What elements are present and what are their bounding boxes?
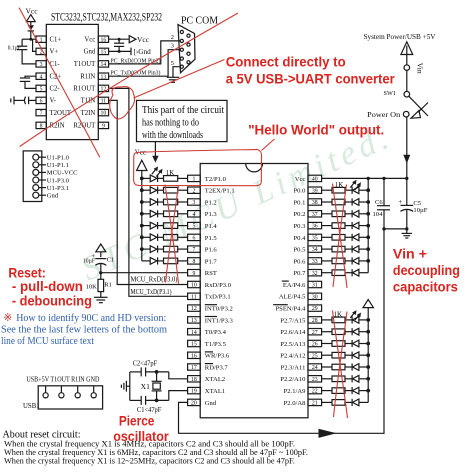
note arrow (152, 142, 158, 163)
resistor 1K row P0.3 (322, 223, 345, 229)
svg-text:Vin +: Vin + (393, 247, 427, 262)
svg-text:P1.7: P1.7 (205, 258, 218, 265)
U3 pin 23 (P2.2/A10) (280, 376, 321, 384)
svg-text:PC COM: PC COM (181, 16, 219, 27)
svg-text:PSEN/P4.4: PSEN/P4.4 (276, 306, 307, 313)
resistor 1K row P1.5 (164, 235, 188, 241)
svg-text:P2.1/A9: P2.1/A9 (284, 388, 307, 395)
LED row P1.4 (140, 222, 164, 229)
U3 pin 10 (RxD/P3.0) (188, 281, 232, 289)
svg-text:System Power/USB +5V: System Power/USB +5V (364, 33, 437, 41)
svg-text:P0.1: P0.1 (293, 199, 305, 206)
LED row P1.1 (140, 187, 164, 194)
svg-text:C2-: C2- (50, 86, 61, 93)
note crystal line 1 (4, 439, 295, 448)
DB9 pin number 3 (171, 42, 174, 49)
svg-text:- debouncing: - debouncing (12, 293, 92, 309)
U3 pin 26 (P2.5/A13) (280, 340, 321, 348)
red scribble around MAX232 TTL pins (110, 87, 135, 119)
svg-text:[›Gnd: [›Gnd (134, 48, 152, 56)
resistor 1K row P2.7 (322, 317, 345, 323)
svg-text:RD/P3.7: RD/P3.7 (205, 364, 229, 371)
LED row P0.3 (345, 222, 370, 229)
svg-text:5: 5 (192, 224, 195, 230)
U2 pin 11 (T1IN) (81, 97, 109, 105)
LED row P2.0 (345, 399, 368, 406)
resistor 1K row P1.3 (164, 211, 188, 217)
svg-text:U1-P3.0: U1-P3.0 (47, 177, 70, 184)
svg-text:U1-P1.1: U1-P1.1 (47, 162, 69, 169)
resistor 1K row P0.4 (322, 235, 345, 241)
svg-text:24: 24 (312, 365, 318, 371)
svg-text:9: 9 (102, 124, 105, 130)
svg-text:16: 16 (101, 37, 107, 43)
svg-text:Vcc: Vcc (295, 176, 306, 183)
capacitor C1 10uF (reset) (83, 253, 114, 273)
svg-text:P2.3/A11: P2.3/A11 (281, 364, 306, 371)
svg-text:12: 12 (191, 306, 197, 312)
svg-text:P2.6/A14: P2.6/A14 (280, 329, 306, 336)
svg-text:TxD/P3.1: TxD/P3.1 (205, 294, 231, 301)
svg-text:MCU_TxD(P3.1): MCU_TxD(P3.1) (131, 289, 172, 296)
svg-text:WR/P3.6: WR/P3.6 (205, 353, 230, 360)
LED row P0.2 (345, 210, 370, 217)
U1 pin U1-P3.0 (33, 177, 70, 184)
U3 pin 33 (P0.6) (293, 258, 321, 266)
svg-text:P2.4/A12: P2.4/A12 (280, 353, 305, 360)
LED row P2.7 (345, 316, 370, 323)
switch SW1 (384, 90, 429, 118)
svg-text:P1.4: P1.4 (205, 223, 218, 230)
red loop around pin1 row (134, 139, 275, 186)
svg-text:- pull-down: - pull-down (12, 278, 83, 294)
note crystal line 2 (4, 448, 308, 457)
svg-text:C6: C6 (375, 199, 383, 206)
svg-text:4: 4 (192, 212, 195, 218)
svg-text:10: 10 (191, 283, 197, 289)
capacitor C2 47pF (130, 359, 169, 377)
svg-text:29: 29 (312, 306, 318, 312)
svg-text:25: 25 (312, 353, 318, 359)
U3 pin 39 (P0.0) (293, 187, 321, 195)
USB1 pin 3 (75, 386, 80, 398)
svg-text:+: + (92, 253, 96, 260)
IC U2 MAX232 body (46, 11, 162, 139)
svg-text:11: 11 (101, 99, 107, 105)
svg-text:R1OUT: R1OUT (73, 86, 96, 93)
red text: pierce oscillator (113, 413, 169, 444)
connector U1 header (23, 151, 42, 202)
U3 pin 40 (Vcc) (295, 175, 322, 183)
svg-text:capacitors: capacitors (393, 280, 458, 295)
MCU U3 STC89C52 body (200, 164, 308, 418)
wire power to rail with arrow (403, 116, 410, 178)
blue note line 2 (1, 325, 167, 336)
U3 pin 28 (P2.7/A15) (280, 317, 321, 325)
LED row P1.7 (142, 257, 164, 264)
LED row P2.1 (345, 387, 370, 394)
LED row P0.5 (345, 246, 370, 253)
svg-text:35: 35 (312, 235, 318, 241)
red annotation line to converter text (134, 60, 225, 99)
U2 pin 6 (V-) (36, 97, 57, 105)
svg-text:C1: C1 (107, 257, 115, 264)
svg-text:P0.0: P0.0 (293, 188, 306, 195)
svg-text:C1+: C1+ (50, 37, 62, 44)
svg-text:SW1: SW1 (384, 90, 396, 97)
blue note line 1 (3, 313, 166, 324)
svg-text:7: 7 (192, 247, 195, 253)
U2 pin 10 (T2IN) (81, 109, 109, 117)
LED row P0.0 (345, 187, 370, 194)
svg-text:P0.6: P0.6 (293, 258, 306, 265)
svg-text:2: 2 (171, 34, 174, 41)
svg-text:T1OUT: T1OUT (74, 61, 96, 68)
U3 pin 27 (P2.6/A14) (280, 329, 321, 337)
ground rail under caps (382, 227, 408, 230)
USB1 pin 1 (43, 386, 48, 398)
LED row P2.3 (345, 363, 370, 370)
LED row P2.4 (345, 352, 370, 359)
svg-text:a 5V USB->UART converter: a 5V USB->UART converter (226, 72, 396, 87)
svg-text:XTAL1: XTAL1 (205, 388, 225, 395)
svg-text:39: 39 (312, 188, 318, 194)
connector USB1 (23, 377, 103, 411)
U3 pin 17 (RD/P3.7) (188, 364, 229, 372)
node Vin (404, 63, 425, 74)
resistor 1K row P1.0 (164, 176, 188, 182)
svg-text:15: 15 (191, 342, 197, 348)
svg-text:※How to identify 90C and HD ve: ※How to identify 90C and HD version: (3, 313, 166, 324)
svg-text:26: 26 (312, 342, 318, 348)
resistor 1K row P2.1 (322, 388, 345, 394)
U2 pin 4 (C2+) (36, 73, 61, 81)
wire pin14 T1OUT to DB9 pin2 (109, 41, 181, 64)
svg-text:MCU_RxD(P3.0): MCU_RxD(P3.0) (131, 277, 178, 284)
svg-text:T1/P3.5: T1/P3.5 (205, 341, 227, 348)
resistor 1K row P0.7 (322, 270, 345, 276)
svg-text:3: 3 (40, 62, 43, 68)
power symbol Vcc (MAX232) (26, 7, 39, 26)
power symbol Vcc (reset) (96, 244, 106, 257)
U3 pin 22 (P2.1/A9) (284, 387, 322, 395)
U3 pin 31 (EA/P4.6) (282, 281, 322, 289)
svg-text:EA/P4.6: EA/P4.6 (283, 282, 306, 289)
U2 pin 9 (R2OUT) (73, 122, 108, 130)
svg-text:P0.2: P0.2 (293, 211, 305, 218)
U3 pin 6 (P1.5) (188, 234, 218, 242)
U3 pin 3 (P1.2) (188, 199, 217, 207)
svg-text:XTAL2: XTAL2 (205, 376, 225, 383)
ground symbol (reset) (94, 297, 108, 302)
connector PC COM (DB9) (178, 16, 219, 73)
svg-text:4: 4 (40, 74, 43, 80)
U3 pin 25 (P2.4/A12) (280, 352, 321, 360)
power symbol Vcc (left LED rail) (135, 150, 147, 171)
resistor 1K row P0.0 (322, 187, 345, 193)
LED row P2.6 (345, 328, 370, 335)
svg-text:U1-P1.0: U1-P1.0 (47, 155, 70, 162)
svg-text:+: + (398, 198, 402, 206)
resistor 1K row P0.6 (322, 258, 345, 264)
LED emission arrows (left) (152, 166, 163, 176)
U3 pin 14 (T0/P3.4) (188, 329, 227, 337)
svg-text:14: 14 (191, 330, 197, 336)
U2 pin 1 (C1+) (36, 36, 61, 44)
svg-text:20: 20 (191, 401, 197, 407)
svg-text:23: 23 (312, 377, 318, 383)
svg-text:oscillator: oscillator (113, 429, 169, 444)
U3 pin 36 (P0.3) (293, 222, 321, 230)
LED row P0.6 (345, 257, 370, 264)
svg-text:P2.5/A13: P2.5/A13 (280, 341, 306, 348)
U2 pin 16 (Vcc) (84, 36, 108, 44)
wire Gnd return with arrow (179, 229, 385, 438)
svg-text:5: 5 (171, 60, 174, 67)
label 1K (left) (166, 169, 175, 177)
svg-text:Vcc: Vcc (137, 35, 150, 44)
svg-text:Gnd: Gnd (205, 400, 217, 407)
resistor 1K row P0.2 (322, 211, 345, 217)
svg-text:R1IN: R1IN (80, 74, 95, 81)
svg-text:PC_RxD(COM Pin2): PC_RxD(COM Pin2) (111, 57, 161, 64)
svg-text:"Hello World" output.: "Hello World" output. (248, 122, 384, 137)
U3 pin 38 (P0.1) (293, 199, 321, 207)
LED row P1.3 (140, 210, 164, 217)
svg-text:40: 40 (312, 177, 318, 183)
svg-text:T2IN: T2IN (81, 110, 96, 117)
resistor 1K row P2.0 (322, 400, 345, 406)
ground symbol (crystal) (121, 381, 126, 392)
svg-text:5: 5 (40, 87, 43, 93)
wire XTAL1 (155, 391, 188, 403)
red cross over MAX232 (19, 8, 238, 158)
svg-text:11: 11 (191, 294, 197, 300)
svg-text:18: 18 (191, 377, 197, 383)
wire pin12 R1OUT to MCU TxD (109, 88, 188, 296)
svg-text:Vin: Vin (416, 63, 425, 74)
svg-text:When the crystal frequency X1: When the crystal frequency X1 is 12~25MH… (4, 457, 295, 466)
svg-text:STC3232,STC232,MAX232,SP232: STC3232,STC232,MAX232,SP232 (51, 11, 162, 23)
resistor 1K row P2.5 (322, 341, 345, 347)
LED row P0.1 (345, 198, 370, 205)
U3 pin 30 (ALE/P4.5) (279, 293, 322, 301)
LED emission arrows (P2) (350, 310, 361, 320)
U3 pin 34 (P0.5) (293, 246, 321, 254)
rail wire (P2 LEDs) (367, 308, 369, 403)
capacitor C7 (decoupling) (114, 39, 124, 51)
svg-text:104: 104 (373, 211, 384, 218)
svg-text:10µF: 10µF (413, 207, 427, 214)
U3 pin 21 (P2.0/A8) (284, 399, 322, 407)
wire Vin to SW1 (406, 70, 408, 92)
USB1 pin 2 (59, 386, 64, 398)
svg-text:27: 27 (312, 330, 318, 336)
U3 pin 32 (P0.7) (293, 270, 321, 278)
U2 pin 12 (R1OUT) (73, 85, 108, 93)
U3 pin 4 (P1.3) (188, 211, 218, 219)
U1 pin MCU-VCC (33, 169, 78, 176)
U3 pin 16 (WR/P3.6) (188, 352, 230, 360)
rail wire (left Vcc) (141, 171, 143, 261)
svg-text:P1.3: P1.3 (205, 211, 218, 218)
U3 pin 2 (T2EX/P1.1) (188, 187, 235, 195)
wire pin16 Vcc (109, 38, 130, 41)
red text: hello world (248, 122, 384, 137)
resistor 1K row P1.2 (164, 199, 188, 205)
LED row P2.2 (345, 375, 370, 382)
label 1K (P2) (334, 310, 343, 318)
svg-text:6: 6 (40, 99, 43, 105)
svg-text:28: 28 (312, 318, 318, 324)
resistor 1K row P1.6 (164, 246, 188, 252)
LED row P1.0 (140, 175, 164, 182)
svg-text:with the downloads: with the downloads (142, 130, 203, 141)
svg-text:P0.4: P0.4 (293, 235, 306, 242)
LED row P0.7 (345, 269, 368, 276)
U3 pin 12 (INT0/P3.2) (188, 305, 233, 313)
U2 pin 8 (R2IN) (36, 122, 65, 130)
power symbol Vcc (right) (129, 35, 150, 44)
DB9 holes (180, 30, 190, 68)
svg-text:13: 13 (101, 74, 107, 80)
svg-text:T2OUT: T2OUT (50, 110, 72, 117)
DB9 pin number 2 (171, 34, 174, 41)
svg-text:19: 19 (191, 389, 197, 395)
red cross over P1 resistors (165, 185, 179, 284)
U3 pin 15 (T1/P3.5) (188, 340, 227, 348)
svg-text:22: 22 (312, 389, 318, 395)
wire crystal left leg (126, 372, 129, 401)
label About reset circuit (3, 430, 81, 441)
power symbol Vcc (P2 rail) (363, 300, 373, 308)
svg-text:line of MCU surface text: line of MCU surface text (1, 336, 94, 347)
U3 pin 8 (P1.7) (188, 258, 218, 266)
svg-text:Power On: Power On (367, 110, 400, 119)
U2 pin 2 (V+) (36, 48, 58, 56)
U3 pin 5 (P1.4) (188, 222, 218, 230)
svg-text:RxD/P3.0: RxD/P3.0 (205, 282, 232, 289)
svg-text:INT0/P3.2: INT0/P3.2 (205, 306, 233, 313)
LED row P1.2 (140, 198, 164, 205)
svg-text:T2/P1.0: T2/P1.0 (205, 176, 227, 183)
label 1K (P0) (335, 181, 344, 189)
diode D5 (supply) (28, 25, 34, 39)
USB1 pin 4 (91, 386, 96, 398)
wire node pin1 (22, 38, 36, 41)
svg-text:P0.5: P0.5 (293, 247, 306, 254)
svg-text:10K: 10K (86, 283, 98, 290)
svg-text:INT1/P3.3: INT1/P3.3 (205, 317, 234, 324)
svg-text:USB+5V T1OUT R1IN GND: USB+5V T1OUT R1IN GND (26, 377, 99, 384)
svg-text:USB1: USB1 (23, 403, 40, 410)
svg-text:has nothing to do: has nothing to do (142, 118, 199, 129)
red text: reset (8, 264, 92, 308)
wire RST (99, 271, 187, 274)
svg-text:Vcc: Vcc (84, 37, 95, 44)
svg-text:1: 1 (40, 37, 43, 43)
svg-text:3: 3 (192, 200, 195, 206)
capacitor C8 0.1uF (8, 39, 36, 64)
capacitor C6 104 (373, 178, 391, 229)
U3 pin 19 (XTAL1) (188, 387, 226, 395)
svg-text:1: 1 (192, 177, 195, 183)
U2 pin 3 (C1-) (36, 61, 60, 68)
svg-text:R2IN: R2IN (50, 123, 65, 130)
capacitor C5 10uF (398, 178, 427, 229)
svg-text:P1.6: P1.6 (205, 247, 218, 254)
svg-text:Gnd: Gnd (84, 49, 96, 56)
LED row P1.6 (140, 246, 164, 253)
svg-text:8: 8 (40, 124, 43, 130)
resistor 1K row P1.4 (164, 223, 188, 229)
capacitor C10 (V-) (11, 96, 36, 104)
svg-text:decoupling: decoupling (393, 263, 460, 278)
U2 pin 7 (T2OUT) (36, 109, 72, 117)
resistor 1K row P2.6 (322, 329, 345, 335)
rail wire (P0 LEDs) (367, 178, 369, 272)
svg-text:When the crystal frequency X1: When the crystal frequency X1 is 6MHz, c… (4, 448, 308, 457)
U3 pin 9 (RST) (188, 270, 217, 278)
svg-text:Pierce: Pierce (119, 413, 155, 428)
svg-text:R1: R1 (104, 282, 112, 289)
svg-text:7: 7 (40, 111, 43, 117)
U2 pin 13 (R1IN) (80, 73, 108, 81)
resistor R1 10K (86, 273, 112, 298)
svg-text:16: 16 (191, 353, 197, 359)
label System Power/USB +5V (364, 33, 437, 41)
svg-text:6: 6 (192, 235, 195, 241)
svg-text:See the the last few letters o: See the the last few letters of the bott… (1, 325, 167, 336)
svg-text:32: 32 (312, 271, 318, 277)
note crystal line 3 (4, 457, 295, 466)
svg-text:Connect directly to: Connect directly to (226, 55, 346, 70)
resistor 1K row P1.1 (164, 187, 188, 193)
svg-text:MCU-VCC: MCU-VCC (47, 170, 78, 177)
svg-text:34: 34 (312, 247, 318, 253)
U3 pin 1 (T2/P1.0) (188, 175, 227, 183)
U3 pin 29 (PSEN/P4.4) (273, 305, 321, 313)
U1 pin U1-P3.1 (33, 185, 69, 192)
resistor 1K row P2.3 (322, 364, 345, 370)
blue note line 3 (1, 336, 94, 347)
svg-text:21: 21 (312, 401, 318, 407)
svg-text:C5: C5 (413, 200, 421, 207)
svg-text:14: 14 (101, 62, 107, 68)
svg-text:31: 31 (312, 283, 318, 289)
LED row P2.5 (345, 340, 370, 347)
wire pin11 T1IN to MCU RxD (109, 100, 188, 284)
U2 pin 15 (Gnd) (84, 48, 109, 56)
U3 pin 35 (P0.4) (293, 234, 321, 242)
svg-text:ALE/P4.5: ALE/P4.5 (279, 294, 306, 301)
svg-text:3: 3 (171, 42, 174, 49)
svg-text:15: 15 (101, 50, 107, 56)
svg-text:U1-P3.1: U1-P3.1 (47, 185, 69, 192)
resistor 1K row P0.5 (322, 246, 345, 252)
power symbol (system +5V) (401, 42, 413, 66)
svg-text:13: 13 (191, 318, 197, 324)
capacitor C9 (C2+/C2-) (20, 76, 36, 88)
svg-text:2: 2 (192, 188, 195, 194)
U2 pin 5 (C2-) (36, 85, 60, 93)
svg-text:V+: V+ (50, 49, 59, 56)
resistor 1K row P2.4 (322, 352, 345, 358)
U2 pin 14 (T1OUT) (74, 61, 109, 68)
red cross over P0 resistors (333, 184, 348, 289)
svg-text:36: 36 (312, 224, 318, 230)
LED row P1.5 (140, 234, 164, 241)
